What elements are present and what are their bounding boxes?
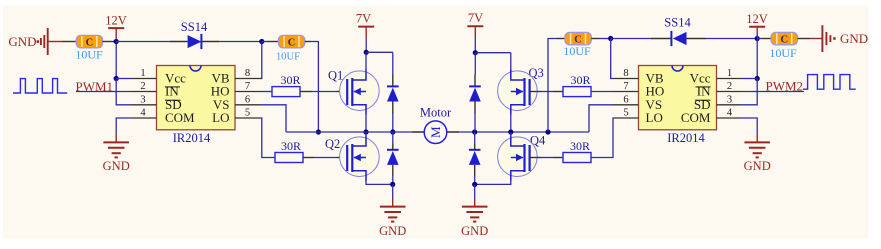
wire R1 to Q1 gate (312, 91, 337, 93)
wire D5 anode to ground rail (474, 176, 476, 184)
svg-text:7: 7 (623, 81, 628, 92)
wire D5 cathode from node (474, 132, 476, 144)
svg-text:Q2: Q2 (325, 137, 340, 151)
capacitor C3 10UF (565, 32, 591, 45)
ground GND left (rotated earth symbol) (8, 28, 62, 55)
U2 pin name SD (694, 97, 711, 112)
power 12V right (746, 12, 768, 34)
svg-text:5: 5 (623, 108, 628, 119)
wire R2 to Q2 gate (314, 157, 337, 159)
ground GND under COM right (744, 142, 770, 157)
svg-text:8: 8 (623, 68, 628, 79)
transistor Q3 (498, 70, 538, 115)
wire junction to Q3 drain corner (475, 52, 511, 54)
svg-text:30R: 30R (281, 139, 301, 153)
wire C2 to bridge node corner (311, 42, 318, 133)
svg-text:SS14: SS14 (664, 16, 691, 30)
node junction Vcc pin1 (114, 76, 119, 81)
wire node line to VS corner right (589, 105, 614, 132)
wire node to Q4 drain (510, 132, 512, 136)
svg-text:1: 1 (727, 68, 732, 79)
U1 pin 5 stub (235, 117, 261, 119)
transistor Q2 (340, 136, 380, 181)
U1 pin name SD (165, 97, 182, 112)
U1 pin 6 stub (235, 104, 261, 106)
transistor Q4 (498, 136, 538, 181)
diode D2 freewheel upper left (387, 86, 399, 101)
U2 pin 5 stub (614, 117, 639, 119)
ground GND bridge right (462, 207, 488, 222)
wire D3 anode to ground rail (392, 176, 394, 184)
U1 pin 1 stub (131, 78, 157, 80)
svg-text:7V: 7V (356, 11, 371, 25)
node junction VB rail right (608, 36, 613, 41)
ground GND under COM right stub (756, 134, 758, 143)
node junction ground rail right (472, 182, 477, 187)
node junction ground rail left (390, 182, 395, 187)
capacitor C4 10UF (771, 32, 797, 45)
motor M1 pin right (447, 131, 459, 133)
svg-text:6: 6 (245, 94, 250, 105)
node junction bridge left (316, 129, 321, 134)
U2 pin 2 stub (717, 91, 742, 93)
diode D2 pin anode (392, 102, 394, 115)
wire Q3 source to node (510, 114, 512, 132)
capacitor C2 pin left (268, 41, 279, 43)
U1 pin 3 stub (131, 104, 157, 106)
svg-text:2: 2 (140, 81, 145, 92)
diode D5 pin cathode (474, 144, 476, 150)
diode D2 pin cathode (392, 75, 394, 87)
capacitor C3 pin right (591, 38, 599, 40)
wire down to GND right bridge (474, 184, 476, 197)
wire LO pin5 down to R2 (261, 118, 276, 158)
motor M1 pin left (412, 131, 424, 133)
ground GND bridge left stub (392, 198, 394, 207)
wire D3 cathode from node (392, 132, 394, 144)
node junction Q1 source (363, 129, 368, 134)
capacitor C4 pin right (798, 38, 811, 40)
svg-text:1: 1 (140, 68, 145, 79)
wire HO pin7 to R1 (261, 91, 273, 93)
U2 pin 3 stub (717, 104, 742, 106)
wire rail to C4 (757, 38, 762, 40)
wire bridge output node line (286, 131, 589, 133)
diode D3 freewheel lower left (387, 150, 399, 165)
capacitor C4 pin left (763, 38, 772, 40)
wire down to GND left bridge (392, 184, 394, 197)
capacitor C3 pin left (557, 38, 566, 40)
diode D5 pin anode (474, 165, 476, 176)
svg-text:SS14: SS14 (181, 20, 208, 34)
wire Vcc down to SD pin 3 (116, 79, 130, 105)
wire Q3 gate to R3 (541, 91, 553, 93)
capacitor C1 pin right (103, 41, 117, 43)
waveform icon PWM2 (803, 75, 856, 90)
U1 pin 2 stub (131, 91, 157, 93)
wire VS pin6 to bridge node (261, 105, 287, 132)
svg-text:6: 6 (623, 94, 628, 105)
wire Q4 gate to R4 (541, 157, 553, 159)
resistor R3 30R upper right (563, 87, 591, 97)
R3 pin left (553, 91, 563, 93)
svg-text:COM: COM (165, 110, 195, 125)
svg-text:GND: GND (103, 159, 130, 173)
R1 pin right (300, 91, 312, 93)
svg-text:LO: LO (646, 110, 663, 125)
diode D6 SS14 body (points left) (671, 31, 686, 46)
wire IN pin 2 right to PWM2 (742, 91, 805, 93)
node junction 7V left (364, 50, 369, 55)
U1 notch (190, 66, 201, 72)
diode D4 freewheel upper right (469, 86, 481, 101)
transistor Q1 (340, 70, 380, 115)
Q3 gate pin (530, 91, 541, 93)
ground GND bridge left (380, 207, 406, 222)
node junction 7V right (473, 50, 478, 55)
U1 pin name IN (165, 84, 180, 99)
wire COM pin 4 to ground (116, 118, 130, 134)
ground GND under COM left stub (115, 134, 117, 143)
svg-text:GND: GND (744, 159, 771, 173)
svg-text:7V: 7V (468, 11, 483, 25)
U2 pin name IN (696, 84, 712, 99)
ground GND bridge right stub (474, 198, 476, 207)
svg-text:8: 8 (245, 68, 250, 79)
wire rail to C2 (262, 41, 268, 43)
wire diode to 12V node right (706, 38, 757, 40)
wire node to Q2 drain (365, 132, 367, 136)
diode D5 freewheel lower right (469, 150, 481, 165)
diode D1 SS14 pin anode (170, 41, 188, 43)
wire 12V right stub to rail (756, 34, 758, 39)
wire R3 to HO pin7 (591, 91, 614, 93)
svg-text:IR2014: IR2014 (667, 131, 705, 145)
wire C3 to VB node (600, 38, 611, 40)
wire rail 12V to diode (116, 41, 170, 43)
node junction VB rail left (259, 39, 264, 44)
R2 pin right (303, 157, 314, 159)
wire D4 anode to node (474, 114, 476, 132)
wire 12V stub to rail (115, 39, 117, 42)
diode D1 SS14 body (188, 34, 202, 49)
power 12V left (105, 13, 127, 38)
Q2 gate pin (337, 157, 348, 159)
svg-text:COM: COM (681, 110, 711, 125)
node junction motor right / D4 (472, 129, 477, 134)
node junction 12V rail (114, 39, 119, 44)
power 7V right (467, 11, 483, 38)
svg-text:Motor: Motor (420, 105, 452, 119)
svg-text:2: 2 (727, 81, 732, 92)
svg-text:10UF: 10UF (563, 44, 591, 58)
wire pin1 right to IC (742, 78, 758, 80)
svg-text:12V: 12V (105, 13, 127, 27)
svg-text:GND: GND (379, 224, 406, 238)
wire D4 top (474, 53, 476, 75)
svg-text:10UF: 10UF (769, 46, 797, 60)
resistor R2 30R lower left (275, 153, 303, 163)
node junction 12V rail right (755, 36, 760, 41)
U2 pin 8 stub (614, 78, 639, 80)
U2 pin 4 stub (717, 117, 742, 119)
diode D3 pin cathode (392, 144, 394, 150)
wire Q2 source to ground rail (366, 180, 393, 184)
Q1 gate pin (337, 91, 348, 93)
U1 pin 4 stub (131, 117, 157, 119)
wire D2 anode to node (392, 114, 394, 132)
svg-text:GND: GND (461, 224, 488, 238)
ground GND right (rotated earth symbol) (810, 25, 868, 52)
wire junction to Q1 drain (365, 52, 367, 70)
svg-text:M: M (428, 126, 443, 138)
resistor R4 30R lower right (563, 153, 591, 163)
wire corner down from right rail (548, 39, 557, 133)
R4 pin left (553, 157, 563, 159)
resistor R1 30R upper left (272, 87, 300, 97)
ground GND under COM left (103, 142, 129, 157)
capacitor C2 pin right (305, 41, 311, 43)
wire VB vertical down to pin 8 right (611, 39, 614, 79)
capacitor C1 10UF pin left (63, 41, 77, 43)
svg-text:GND: GND (8, 34, 36, 49)
diode D3 pin anode (392, 165, 394, 176)
diode D1 SS14 pin cathode (201, 41, 219, 43)
waveform icon PWM1 (13, 79, 67, 93)
svg-text:10UF: 10UF (276, 52, 300, 63)
op-amp U1 IR2014 body (157, 66, 236, 130)
svg-text:30R: 30R (570, 139, 590, 153)
diode D4 pin cathode (474, 75, 476, 87)
wire 7V right to junction (474, 38, 476, 53)
svg-text:30R: 30R (280, 73, 300, 87)
svg-text:10UF: 10UF (75, 48, 103, 62)
diode D4 pin anode (474, 102, 476, 115)
node junction D2 (390, 129, 395, 134)
svg-text:4: 4 (727, 108, 733, 119)
wire rail to diode SS14 right (611, 38, 651, 40)
power 7V left (356, 11, 374, 38)
wire R4 up to LO pin5 (591, 118, 614, 158)
U1 pin 8 stub (235, 78, 261, 80)
svg-text:4: 4 (140, 108, 146, 119)
svg-text:3: 3 (140, 94, 145, 105)
U2 notch (672, 66, 683, 72)
U2 pin 7 stub (614, 91, 639, 93)
op-amp U2 IR2014 body (639, 66, 717, 130)
U2 pin 1 stub (717, 78, 742, 80)
Q4 gate pin (530, 157, 541, 159)
diode D6 SS14 pin anode (687, 38, 707, 40)
node junction Vcc pin1 right (755, 76, 760, 81)
svg-text:5: 5 (245, 108, 250, 119)
wire diode to VB node (219, 41, 262, 43)
wire 7V to junction (365, 39, 367, 53)
capacitor C1 10UF (76, 35, 102, 48)
wire pin1 to IC (116, 78, 130, 80)
node junction Q3 source (508, 129, 513, 134)
svg-text:7: 7 (245, 81, 250, 92)
wire 12V vertical to Vcc pin 1 (115, 42, 117, 79)
wire 12V right vertical to Vcc pin 1 (756, 39, 758, 79)
svg-text:Q1: Q1 (328, 69, 343, 83)
svg-text:LO: LO (212, 110, 229, 125)
svg-text:12V: 12V (746, 12, 768, 26)
capacitor C2 10UF (278, 35, 304, 48)
wire D2 top (392, 52, 394, 74)
wire Q3 drain vertical (510, 53, 512, 70)
wire Q1 source to node (365, 114, 367, 132)
wire COM pin 4 right to ground (742, 118, 758, 134)
motor M1 body (424, 121, 447, 144)
node junction right bridge corner (545, 129, 550, 134)
wire junction to D2 corner (366, 51, 393, 53)
wire PWM1 to IN pin 2 (76, 91, 131, 93)
svg-text:3: 3 (727, 94, 732, 105)
U1 pin 7 stub (235, 91, 261, 93)
wire Q4 source to ground rail (475, 180, 511, 184)
svg-text:IR2014: IR2014 (173, 131, 211, 145)
wire Vcc down to SD pin 3 right (742, 79, 758, 105)
svg-text:30R: 30R (570, 73, 590, 87)
wire VB vertical down to pin 8 (260, 42, 262, 79)
U2 pin 6 stub (614, 104, 639, 106)
svg-text:GND: GND (840, 31, 868, 46)
diode D6 SS14 pin cathode (651, 38, 671, 40)
